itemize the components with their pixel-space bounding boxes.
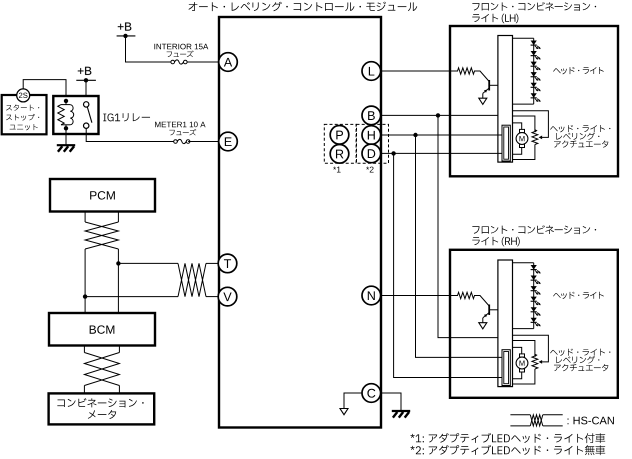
ground (relay coil) — [57, 145, 75, 152]
internal ground arrow (C) — [340, 409, 348, 415]
wire L headlight feed (LH) — [381, 70, 458, 72]
+B power symbol 1 — [117, 22, 136, 38]
wire resistor to transistor base (LH) — [474, 71, 489, 82]
terminal N — [362, 286, 381, 305]
wire motor top (LH) — [513, 123, 522, 129]
motor M (leveling actuator) (RH) — [516, 354, 528, 372]
wire motor bottom (RH) — [513, 372, 522, 379]
connector 2S — [17, 89, 30, 102]
terminal R — [330, 145, 349, 164]
label *2 — [366, 167, 373, 173]
terminal E — [219, 132, 238, 151]
wire pot bottom (LH) — [513, 145, 535, 160]
wire C internal to arrow — [344, 393, 362, 409]
wire pot bottom (RH) — [513, 369, 535, 384]
motor M (leveling actuator) (LH) — [516, 129, 528, 147]
wire +B2 to relay switch — [85, 80, 87, 102]
wire +B1 to fuse — [126, 36, 172, 62]
title: auto leveling control module (オート・レベリング・コントロール・モジュール) — [189, 2, 418, 12]
wire relay switch to fuse — [86, 128, 174, 141]
dashed option box *1 — [324, 124, 356, 163]
twisted pair PCM to BCM — [85, 212, 118, 314]
terminal A — [219, 53, 238, 72]
connector strip (LH) — [498, 36, 513, 163]
wire resistor to transistor base (RH) — [474, 296, 489, 307]
LED headlight string (6 LEDs) (LH) — [531, 41, 541, 102]
relay switch — [84, 102, 92, 129]
IG1 relay box — [53, 96, 98, 134]
ground (terminal C) — [392, 411, 410, 418]
wire N headlight feed (RH) — [381, 295, 458, 297]
terminal H — [362, 126, 381, 145]
actuator connector (RH) — [502, 350, 510, 386]
potentiometer (position sensor) (LH) — [532, 129, 538, 144]
label combination meter line2 — [88, 410, 116, 419]
node B branch — [436, 113, 440, 117]
relay coil — [58, 99, 74, 131]
combination meter box (コンビネーション・メータ) — [49, 393, 155, 424]
connector strip (RH) — [498, 260, 513, 387]
HS-CAN legend twisted pair symbol — [510, 415, 562, 426]
LED headlight string (6 LEDs) (RH) — [531, 265, 541, 326]
label actuator LH line1 — [550, 125, 610, 132]
wire D branch to RH actuator connector — [394, 153, 502, 377]
label headlight LH (ヘッド・ライト) — [553, 67, 604, 74]
resistor (headlight driver) RH (RH) — [458, 292, 475, 298]
dashed option box *2 — [357, 124, 389, 163]
node H branch — [413, 133, 417, 137]
start-stop unit box (スタート・ストップ・ユニット) — [2, 95, 47, 134]
wire motor top (RH) — [513, 347, 522, 354]
terminal L — [362, 62, 381, 81]
terminal B — [362, 106, 381, 125]
label front combination light RH line2 — [472, 237, 519, 247]
wire pot top (LH) — [513, 116, 535, 132]
wire relay coil to ground — [65, 128, 67, 145]
terminal T — [218, 254, 237, 273]
terminal D — [362, 144, 381, 163]
potentiometer (position sensor) (RH) — [532, 354, 538, 369]
wire motor bottom (LH) — [513, 147, 522, 154]
wire 2S to relay coil — [23, 80, 66, 96]
+B power symbol 2 — [76, 67, 96, 83]
label front combination light LH line2 — [472, 14, 518, 24]
fuse METER1 10A — [174, 139, 190, 143]
label IG1 relay (IG1リレー) — [103, 113, 150, 121]
label actuator LH line3 — [554, 141, 608, 148]
wire terminal H to LH actuator connector — [381, 134, 502, 136]
label INTERIOR 15A — [154, 44, 208, 50]
label combination meter line1 — [57, 398, 143, 407]
label start-stop unit line1 — [6, 104, 39, 110]
wire wiper loop (RH) — [513, 335, 549, 364]
label *1 — [333, 167, 340, 173]
label PCM — [90, 191, 115, 199]
twisted pair BCM to combination meter — [84, 346, 119, 394]
wire C to chassis ground — [381, 393, 401, 411]
terminal C — [362, 384, 381, 403]
terminal V — [218, 287, 237, 306]
front combination light LH box — [450, 26, 618, 176]
note *2 (アダプティブLEDヘッド・ライト無車) — [410, 445, 605, 455]
wire H branch to RH actuator connector — [416, 135, 503, 357]
label BCM — [90, 325, 115, 333]
wire terminal B to LH strip — [381, 114, 498, 116]
label actuator RH line1 — [550, 349, 610, 356]
label METER1 10 A — [155, 122, 205, 128]
transistor (headlight driver) RH (RH) — [483, 305, 498, 323]
wire B branch to RH strip — [438, 115, 498, 337]
wire fuse to terminal A — [187, 61, 219, 63]
note *1 (アダプティブLEDヘッド・ライト付車) — [410, 433, 605, 443]
label HS-CAN — [568, 417, 614, 425]
auto leveling control module box — [219, 17, 381, 428]
label start-stop unit line3 — [10, 124, 38, 130]
label front combination light LH line1 — [472, 2, 596, 11]
front combination light RH box — [450, 250, 618, 398]
terminal P — [330, 126, 349, 145]
label headlight RH (ヘッド・ライト) — [553, 292, 604, 299]
fuse INTERIOR 15A — [171, 60, 187, 64]
wire LED string (LH) — [513, 38, 534, 104]
label actuator RH line3 — [554, 364, 608, 371]
BCM box — [49, 313, 155, 346]
PCM box — [50, 179, 155, 212]
node tap T — [116, 261, 120, 265]
label start-stop unit line2 — [6, 114, 39, 121]
node D branch — [391, 151, 395, 155]
wire pot top (RH) — [513, 341, 535, 357]
twisted pair wires to terminals T and V — [85, 263, 218, 296]
wire wiper loop (LH) — [513, 111, 549, 140]
node tap V — [83, 294, 87, 298]
emitter open arrow (LH) — [479, 98, 487, 104]
label fuse 2 (フューズ) — [169, 129, 196, 136]
label fuse 1 (フューズ) — [167, 51, 194, 58]
wire terminal D to LH actuator connector — [381, 152, 502, 154]
wire fuse to terminal E — [188, 141, 219, 143]
wire LED string (RH) — [513, 263, 534, 329]
actuator connector (LH) — [502, 125, 510, 161]
transistor (headlight driver) LH (LH) — [483, 80, 498, 98]
label actuator RH line2 — [556, 356, 599, 364]
label front combination light RH line1 — [472, 225, 596, 234]
emitter open arrow (RH) — [479, 323, 487, 329]
label actuator LH line2 — [556, 132, 599, 140]
resistor (headlight driver) LH (LH) — [458, 68, 475, 74]
